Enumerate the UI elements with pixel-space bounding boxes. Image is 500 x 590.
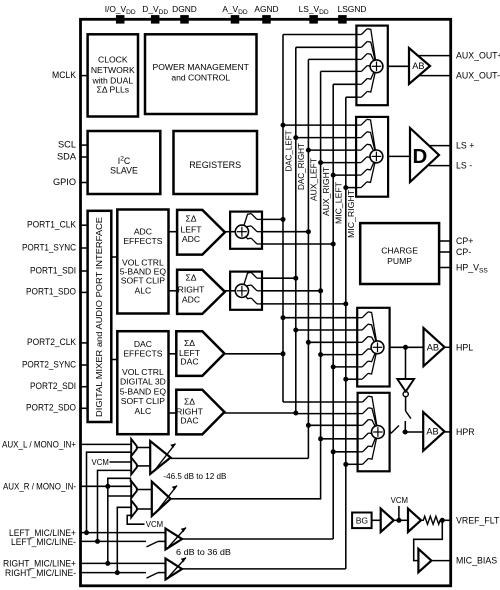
pin AGND xyxy=(254,4,278,24)
wire bus4 to HPL mixer input 4 xyxy=(321,354,358,356)
svg-text:EFFECTS: EFFECTS xyxy=(123,236,162,246)
svg-text:ΣΔ: ΣΔ xyxy=(185,213,196,223)
wire mux4 to PGA2 xyxy=(137,508,152,510)
svg-text:PORT1_SDI: PORT1_SDI xyxy=(30,265,76,275)
pin PORT2_SYNC xyxy=(22,359,88,369)
wire record-right tap1 (bus2) xyxy=(262,277,296,279)
sigma-delta right DAC xyxy=(176,390,224,435)
svg-text:VCM: VCM xyxy=(391,496,408,505)
wire record-left tap3 (bus5) xyxy=(262,243,333,245)
bus AUX_LEFT (vertical net) xyxy=(306,59,311,458)
pin AUX_L / MONO_IN+ xyxy=(2,439,131,449)
bandgap box BG xyxy=(352,513,372,529)
pin AUX_R / MONO_IN- xyxy=(3,481,131,491)
pin LEFT_MIC/LINE+ xyxy=(9,528,166,538)
svg-text:HPR: HPR xyxy=(456,427,475,437)
svg-text:GPIO: GPIO xyxy=(53,177,76,187)
ADC effects box xyxy=(117,210,168,314)
svg-text:BG: BG xyxy=(356,516,369,526)
PGA1 aux-left amplifier (-46.5dB to 12dB) xyxy=(150,441,175,474)
bus DAC_LEFT (vertical net) xyxy=(281,35,286,403)
wire bus3 to HPR mixer input 3 xyxy=(308,424,357,426)
bus MIC_LEFT (vertical net) xyxy=(331,84,336,539)
svg-text:DAC_RIGHT: DAC_RIGHT xyxy=(296,143,306,190)
svg-text:PORT1_CLK: PORT1_CLK xyxy=(27,220,77,230)
riser LEFT_MIC+ to mux1 xyxy=(84,452,131,535)
DAC effects box xyxy=(117,331,168,434)
svg-text:SCL: SCL xyxy=(58,139,76,149)
svg-text:VREF_FLT: VREF_FLT xyxy=(456,515,500,525)
svg-text:5-BAND EQ: 5-BAND EQ xyxy=(120,387,167,397)
wire bus2 to LS mixer input 2 xyxy=(296,137,356,139)
svg-text:AUX_RIGHT: AUX_RIGHT xyxy=(321,167,331,216)
buffer amp 2 (VREF) xyxy=(408,509,421,532)
svg-text:REGISTERS: REGISTERS xyxy=(189,160,241,170)
wire record-left tap1 (bus1) xyxy=(262,218,283,220)
wire bus6 to AUX mixer input 6 xyxy=(346,96,357,98)
wire mux1 to PGA1 xyxy=(137,447,150,449)
svg-text:6 dB to 36 dB: 6 dB to 36 dB xyxy=(176,547,231,557)
wire DAC effects to left DAC xyxy=(169,353,177,355)
power management box xyxy=(145,34,257,114)
svg-text:AGND: AGND xyxy=(254,4,278,14)
svg-text:PUMP: PUMP xyxy=(387,256,412,266)
switch on RIGHT_MIC/LINE- input xyxy=(147,573,166,579)
wire HPL mixer to amp xyxy=(390,345,424,350)
mux M4 (aux-right VCM select) xyxy=(131,500,137,517)
svg-text:ΣΔ PLLs: ΣΔ PLLs xyxy=(97,85,130,95)
svg-text:ALC: ALC xyxy=(135,286,152,296)
svg-text:PORT2_SYNC: PORT2_SYNC xyxy=(22,359,76,369)
svg-text:LS -: LS - xyxy=(456,161,472,171)
wire bus4 to AUX mixer input 4 xyxy=(321,70,357,72)
svg-text:ADC: ADC xyxy=(182,234,200,244)
wire bus5 to HPR mixer input 5 xyxy=(333,451,357,453)
svg-text:DIGITAL MIXER and AUDIO PORT I: DIGITAL MIXER and AUDIO PORT INTERFACE xyxy=(94,217,104,417)
registers box xyxy=(174,131,258,194)
svg-text:CLOCK: CLOCK xyxy=(98,55,128,65)
svg-text:ΣΔ: ΣΔ xyxy=(184,338,195,348)
mixer U-AUX (aux output mixer) xyxy=(356,26,387,106)
svg-text:DGND: DGND xyxy=(172,4,197,14)
svg-text:AB: AB xyxy=(427,342,439,352)
wire PGA2 output to bus4 xyxy=(171,497,321,500)
clock network box xyxy=(88,34,138,116)
svg-text:AUX_OUT+: AUX_OUT+ xyxy=(456,51,500,61)
buffer amp 1 (VCM) xyxy=(381,509,394,532)
wire digital-mixer to DAC effects xyxy=(111,359,117,361)
bus AUX_RIGHT (vertical net) xyxy=(318,71,323,498)
wire record-right tap3 (bus6) xyxy=(262,303,346,305)
svg-text:DIGITAL 3D: DIGITAL 3D xyxy=(120,377,166,387)
pin I/O_VDD xyxy=(105,4,136,24)
bus DAC_RIGHT (vertical net) xyxy=(293,47,298,415)
riser RIGHT_MIC- to mux4 xyxy=(115,507,131,575)
sigma-delta left ADC xyxy=(177,210,225,255)
svg-text:PORT2_SDO: PORT2_SDO xyxy=(26,403,76,413)
svg-text:AB: AB xyxy=(412,61,424,71)
svg-text:RIGHT: RIGHT xyxy=(178,284,205,294)
wire right DAC output to bus2 xyxy=(224,412,295,414)
pin HP_VSS xyxy=(439,263,488,275)
wire mux3 to PGA2 xyxy=(137,489,152,491)
wire mic amp right output to bus6 xyxy=(182,568,346,570)
mixer U-HPL (headphone left mixer) xyxy=(357,308,389,387)
svg-text:CHARGE: CHARGE xyxy=(381,245,418,255)
PGA2 aux-right amplifier xyxy=(152,482,177,516)
wire bus1 to AUX mixer input 1 xyxy=(283,34,356,36)
svg-text:EFFECTS: EFFECTS xyxy=(123,348,162,358)
svg-text:MCLK: MCLK xyxy=(52,70,77,80)
amp HPL (class AB) xyxy=(424,328,445,366)
amp AUX_OUT (class AB) xyxy=(409,48,430,84)
pin LS_VDD xyxy=(299,4,329,24)
inverter between HPL and HPR xyxy=(397,347,414,396)
pin AUX_OUT+ xyxy=(418,51,500,61)
wire mic amp left output to bus5 xyxy=(182,538,333,540)
pin SDA xyxy=(57,151,88,161)
wire BG to buffer1 xyxy=(372,519,381,521)
svg-text:I2C: I2C xyxy=(118,155,131,165)
svg-text:LEFT: LEFT xyxy=(180,225,202,235)
svg-text:SDA: SDA xyxy=(57,151,77,161)
svg-text:LS +: LS + xyxy=(456,141,474,151)
pin LS- xyxy=(429,161,472,171)
wire bus5 to HPL mixer input 5 xyxy=(333,366,357,368)
svg-text:ALC: ALC xyxy=(135,406,152,416)
mux M1 (aux-left signal select) xyxy=(131,439,137,456)
svg-text:PORT1_SYNC: PORT1_SYNC xyxy=(22,242,76,252)
svg-text:LEFT_MIC/LINE-: LEFT_MIC/LINE- xyxy=(11,537,76,547)
wire VREF node to MIC_BIAS amp xyxy=(414,520,443,560)
riser RIGHT_MIC+ to mux3 xyxy=(105,484,131,566)
wire right ADC to record mixer right xyxy=(225,290,236,292)
record mixer right (3-input) xyxy=(230,272,262,310)
pin PORT1_SDI xyxy=(30,265,88,275)
VCM node label xyxy=(391,496,408,521)
bus MIC_RIGHT (vertical net) xyxy=(343,97,348,569)
VCM label (aux-left mux) xyxy=(92,458,132,467)
svg-text:and CONTROL: and CONTROL xyxy=(171,73,230,83)
wire buffer1 to buffer2 xyxy=(394,518,408,523)
svg-text:ΣΔ: ΣΔ xyxy=(184,397,195,407)
pin LEFT_MIC/LINE- xyxy=(11,537,146,547)
mux M3 (aux-right signal select) xyxy=(131,481,137,498)
svg-text:SOFT CLIP: SOFT CLIP xyxy=(121,276,166,286)
pin MCLK xyxy=(52,70,88,80)
charge pump box xyxy=(360,223,439,284)
pin VREF_FLT xyxy=(440,515,500,525)
svg-text:VCM: VCM xyxy=(92,458,109,467)
pin PORT1_SYNC xyxy=(22,242,88,252)
svg-text:MIC_RIGHT: MIC_RIGHT xyxy=(346,190,356,238)
VCM hook (aux-right mux) xyxy=(127,515,163,529)
svg-text:POWER MANAGEMENT: POWER MANAGEMENT xyxy=(152,62,249,72)
pin PORT2_CLK xyxy=(27,337,88,347)
svg-text:-46.5 dB to 12 dB: -46.5 dB to 12 dB xyxy=(163,471,226,481)
wire mixer to D amp xyxy=(388,155,410,157)
wire bus5 to AUX mixer input 5 xyxy=(333,83,356,85)
wire record-right tap2 (bus4) xyxy=(262,290,321,292)
wire bus3 to LS mixer input 3 xyxy=(308,149,356,151)
wire digital-mixer to ADC effects xyxy=(111,256,117,258)
wire bus1 to LS mixer input 1 xyxy=(283,124,356,126)
pin RIGHT_MIC/LINE- xyxy=(5,568,146,578)
pin HPR xyxy=(445,427,475,437)
amp MIC_BIAS xyxy=(418,549,431,572)
svg-text:AUX_R / MONO_IN-: AUX_R / MONO_IN- xyxy=(3,481,76,491)
svg-text:DAC_LEFT: DAC_LEFT xyxy=(283,131,293,172)
pin GPIO xyxy=(53,177,88,187)
sigma-delta left DAC xyxy=(176,331,224,376)
mixer U-HPR (headphone right mixer) xyxy=(358,393,390,472)
wire PGA1 output to bus3 xyxy=(171,457,309,459)
I2C slave box xyxy=(88,131,161,194)
svg-text:AB: AB xyxy=(426,427,438,437)
svg-text:AUX_L / MONO_IN+: AUX_L / MONO_IN+ xyxy=(2,439,76,449)
svg-text:CP-: CP- xyxy=(456,247,471,257)
mux M2 (aux-left VCM select) xyxy=(131,457,137,474)
svg-text:MIC_LEFT: MIC_LEFT xyxy=(334,182,344,224)
wire left DAC output to bus1 xyxy=(224,353,283,355)
switch on LEFT_MIC/LINE- input xyxy=(147,541,166,547)
wire bus3 to HPL mixer input 3 xyxy=(308,341,357,343)
svg-text:AUX_OUT-: AUX_OUT- xyxy=(456,71,500,81)
svg-text:PORT2_CLK: PORT2_CLK xyxy=(27,337,77,347)
svg-text:ΣΔ: ΣΔ xyxy=(185,273,196,283)
digital mixer / audio port interface box xyxy=(88,211,112,422)
chip outline xyxy=(81,19,451,586)
pin CP+ xyxy=(439,236,473,246)
svg-text:LSGND: LSGND xyxy=(338,4,367,14)
wire bus6 to LS mixer input 6 xyxy=(346,187,356,189)
record mixer left (3-input) xyxy=(230,212,262,249)
wire bus2 to AUX mixer input 2 xyxy=(296,46,357,48)
pin PORT2_SDI xyxy=(30,381,88,391)
pin PORT1_SDO xyxy=(26,287,88,297)
pin CP- xyxy=(439,247,471,257)
pin D_VDD xyxy=(142,4,168,24)
wire bus2 to HPL mixer input 2 xyxy=(296,329,357,331)
branch AUX_R detour to mux3 top xyxy=(108,478,131,486)
pin AUX_OUT- xyxy=(419,71,500,81)
wire ADC effects to left ADC xyxy=(169,231,178,233)
svg-text:NETWORK: NETWORK xyxy=(91,65,135,75)
pin SCL xyxy=(58,139,88,149)
wire bus4 to LS mixer input 4 xyxy=(321,162,357,164)
pin RIGHT_MIC/LINE+ xyxy=(3,558,166,568)
pin DGND xyxy=(172,4,197,24)
svg-text:VCM: VCM xyxy=(146,520,163,529)
pin LS+ xyxy=(429,141,475,151)
wire record-left tap2 (bus3) xyxy=(262,231,308,233)
resistor to VREF_FLT xyxy=(421,516,442,524)
sigma-delta right ADC xyxy=(177,270,225,314)
svg-text:DAC: DAC xyxy=(180,415,198,425)
wire bus6 to HPL mixer input 6 xyxy=(346,378,357,380)
wire bus2 to HPR mixer input 2 xyxy=(296,413,358,415)
pin PORT2_SDO xyxy=(26,403,88,413)
wire DAC effects to right DAC xyxy=(169,412,177,414)
svg-text:RIGHT_MIC/LINE-: RIGHT_MIC/LINE- xyxy=(5,568,76,578)
wire bus3 to AUX mixer input 3 xyxy=(308,58,356,60)
pin A_VDD xyxy=(222,4,248,24)
amp LS (class D) xyxy=(410,128,439,182)
pin LSGND xyxy=(338,4,367,24)
pin MIC_BIAS xyxy=(431,556,497,566)
svg-text:VOL CTRL: VOL CTRL xyxy=(122,367,164,377)
pin HPL xyxy=(445,342,474,352)
wire bus4 to HPR mixer input 4 xyxy=(321,438,358,440)
amp HPR (class AB) xyxy=(423,412,444,451)
switch on HPR mixer output xyxy=(390,426,424,435)
mic amp left (6dB to 36dB) xyxy=(166,528,187,550)
wire bus1 to HPL mixer input 1 xyxy=(283,317,357,319)
wire mixer to AUX amp xyxy=(388,65,409,67)
svg-text:HPL: HPL xyxy=(456,342,473,352)
wire ADC effects to right ADC xyxy=(169,290,178,292)
switch inverter to HPR xyxy=(405,397,411,432)
wire bus5 to LS mixer input 5 xyxy=(333,174,356,176)
wire bus1 to HPR mixer input 1 xyxy=(283,401,358,403)
pin PORT1_CLK xyxy=(27,220,88,230)
wire mux2 to PGA1 xyxy=(137,465,150,467)
mic amp right xyxy=(166,558,187,580)
mixer U-LS (speaker output mixer) xyxy=(356,117,388,197)
svg-text:CP+: CP+ xyxy=(456,236,473,246)
svg-text:D: D xyxy=(413,145,428,168)
svg-text:AUX_LEFT: AUX_LEFT xyxy=(309,158,319,201)
wire bus6 to HPR mixer input 6 xyxy=(346,463,358,465)
svg-text:MIC_BIAS: MIC_BIAS xyxy=(456,556,497,566)
svg-text:ADC: ADC xyxy=(182,295,200,305)
riser LEFT_MIC- to mux2 xyxy=(95,470,131,544)
svg-text:PORT1_SDO: PORT1_SDO xyxy=(26,287,76,297)
svg-text:DAC: DAC xyxy=(180,357,198,367)
svg-text:PORT2_SDI: PORT2_SDI xyxy=(30,381,76,391)
svg-text:SOFT CLIP: SOFT CLIP xyxy=(121,396,166,406)
wire left ADC to record mixer left xyxy=(225,231,236,233)
svg-text:SLAVE: SLAVE xyxy=(110,165,138,175)
